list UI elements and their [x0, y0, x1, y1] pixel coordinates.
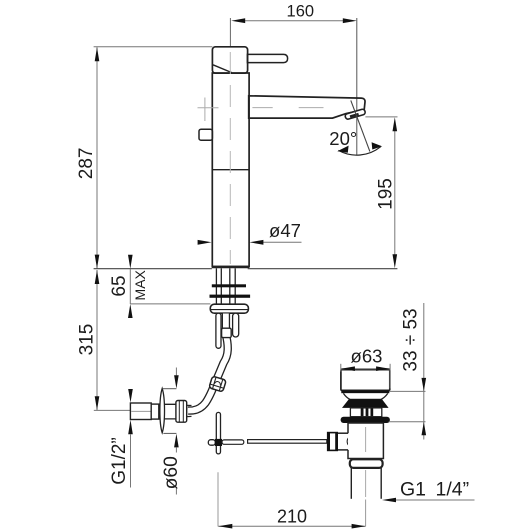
dim phi63 ext right — [389, 364, 391, 389]
dim phi60 line bottom — [175, 488, 177, 495]
dim 315 arrow bottom — [95, 396, 100, 410]
dim 195 line — [394, 130, 396, 255]
drain funnel — [343, 393, 387, 399]
deck line left — [94, 268, 212, 270]
dim 287 arrow bottom — [95, 255, 100, 269]
dim 160 arrow right — [343, 18, 357, 23]
dim phi60 line mid — [175, 447, 177, 452]
dim phi63 arrow left — [341, 366, 355, 371]
drain body centerline — [365, 427, 367, 452]
drain body — [348, 423, 383, 459]
lever handle — [247, 54, 287, 62]
shank black band 1 — [212, 284, 246, 287]
faucet head cap — [212, 47, 247, 73]
dim phi63 arrow right — [376, 366, 390, 371]
dim 33-53 ext top — [390, 390, 426, 392]
dim phi47 leader line — [261, 241, 302, 243]
body vertical centerline dashes — [229, 52, 231, 264]
supply hose left (cut) — [216, 313, 221, 348]
dim G1 1/4 leader — [385, 499, 475, 501]
supply hose right (cut) — [233, 313, 239, 337]
popup horizontal rod left stub — [208, 440, 215, 446]
svg-text:210: 210 — [277, 507, 307, 527]
dim phi60 ext bottom — [163, 432, 176, 434]
spout centerline dashes — [198, 107, 219, 109]
drain gasket black trapezoid — [342, 399, 389, 408]
wall supply tube G1/2 — [130, 403, 151, 420]
body left tab — [199, 129, 212, 140]
faucet body column — [212, 73, 249, 267]
dim G1/2 arrow bottom — [128, 420, 133, 435]
dim 315 arrow top — [95, 270, 100, 284]
dim phi63 line — [341, 368, 390, 370]
body bottom thick edge — [212, 266, 249, 269]
svg-text:ø63: ø63 — [351, 346, 383, 367]
wall tube inner line — [131, 410, 151, 412]
dim 287 extension top — [94, 46, 213, 48]
dim 160 line — [244, 20, 344, 22]
dim phi63 ext left — [340, 364, 342, 372]
dim 195 arrow bottom — [393, 254, 398, 268]
dim 210 line — [218, 525, 365, 527]
dim 65 arrow bottom — [128, 304, 133, 318]
drain tailpipe — [350, 468, 352, 499]
angle 20 deg line — [351, 100, 370, 151]
dim 65 line — [129, 269, 131, 304]
svg-text:ø60: ø60 — [161, 456, 182, 489]
angle arc arrow left — [337, 146, 348, 153]
popup tie rod vertical — [216, 412, 220, 454]
drain cap — [341, 370, 390, 391]
shank black band 2 — [210, 295, 251, 298]
dim 210 arrow right — [352, 524, 366, 529]
dim 287 arrow top — [95, 47, 100, 61]
popup horizontal rod piece 2 — [248, 440, 327, 444]
mounting flange nut — [210, 304, 248, 313]
popup rod clamp — [215, 439, 222, 446]
dim G1 1/4 arrow — [382, 498, 396, 503]
svg-text:MAX: MAX — [132, 269, 148, 300]
dim 210 ext left — [217, 472, 219, 526]
faucet shank tubes under deck — [215, 268, 217, 304]
dim 287 line — [96, 47, 98, 268]
drain cap underside band — [341, 390, 389, 393]
svg-text:33 ÷ 53: 33 ÷ 53 — [400, 308, 421, 371]
wall flange disc (lens) — [160, 388, 165, 432]
svg-text:20°: 20° — [329, 128, 357, 149]
flange mid line — [211, 309, 249, 311]
dim phi47 arrow left — [198, 240, 212, 245]
tailpipe centerline — [365, 470, 367, 497]
dim phi47 arrow right — [249, 240, 263, 245]
popup horizontal rod piece 1 — [222, 440, 244, 444]
dim 33-53 arrow top — [422, 378, 427, 391]
hose end wedge at fitting — [187, 404, 192, 406]
wall compression fitting — [176, 401, 187, 423]
hose union nut — [209, 376, 226, 392]
svg-text:315: 315 — [77, 324, 98, 356]
flexible hose to wall — [188, 314, 228, 411]
dim 65 arrow top — [128, 255, 133, 269]
spout axis cross vertical tick — [204, 98, 206, 122]
angle arc — [338, 147, 380, 155]
faucet head parting diagonal — [213, 65, 232, 73]
dim 33-53 arrow bottom — [422, 422, 427, 435]
dim 33-53 line — [423, 303, 425, 440]
dim 33-53 ext bottom — [389, 421, 426, 423]
deck line right — [248, 268, 398, 270]
dim phi60 arrow top — [174, 375, 179, 388]
svg-text:160: 160 — [287, 2, 315, 20]
dim phi60 ext top — [162, 388, 176, 390]
dim 315 extension bottom — [94, 409, 130, 411]
drain port neck — [338, 432, 348, 434]
svg-text:195: 195 — [375, 178, 396, 210]
body seam line — [212, 169, 248, 171]
dim phi60 arrow bottom — [174, 434, 179, 448]
dim 195 arrow top — [393, 117, 398, 131]
spout outline — [249, 96, 365, 118]
wall hex nut — [151, 404, 159, 419]
dim G1/2 line lower — [130, 434, 132, 487]
svg-text:ø47: ø47 — [269, 220, 301, 241]
svg-text:G11/4”: G11/4” — [400, 479, 469, 501]
angle arc arrow right — [372, 142, 383, 149]
dim 210 arrow left — [218, 524, 232, 529]
dim G1/2 arrow top — [128, 389, 133, 403]
MAX line — [130, 303, 210, 305]
dim 160 arrow left — [231, 18, 245, 23]
svg-text:65: 65 — [109, 275, 130, 296]
wall neck lines — [159, 403, 176, 405]
drain locknut black band — [341, 417, 390, 423]
dim phi60 line top — [175, 368, 177, 376]
dim 160 extension left (faucet centerline top) — [229, 18, 231, 47]
hose connector at faucet — [222, 328, 232, 337]
dim 160 extension right (spout tip vertical) — [356, 18, 358, 155]
svg-text:G1/2”: G1/2” — [109, 437, 130, 485]
drain coupling ring — [350, 459, 383, 468]
dim 210 ext right — [365, 500, 367, 527]
aerator tilted — [345, 109, 366, 120]
drain side port block — [327, 432, 338, 451]
svg-text:287: 287 — [76, 148, 97, 180]
dim 195 extension top — [365, 116, 397, 118]
dim 315 line — [96, 270, 98, 410]
drain threaded collar — [350, 408, 381, 417]
